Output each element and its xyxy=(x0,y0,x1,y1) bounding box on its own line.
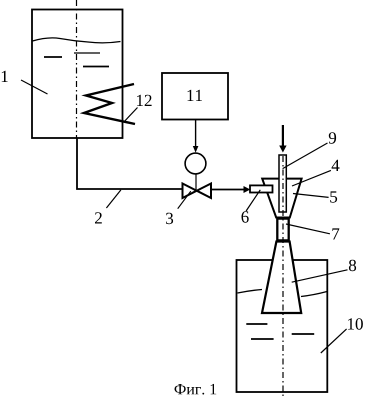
liquid dash a xyxy=(44,56,62,58)
inlet arrowhead xyxy=(279,146,286,153)
throat 7 xyxy=(277,219,288,241)
pipe valve to nozzle 6 xyxy=(211,189,245,191)
label 6 xyxy=(242,211,249,223)
line box 11 to pump xyxy=(195,120,197,148)
label 12 xyxy=(137,95,152,106)
pipe 2 xyxy=(77,138,183,189)
tank 1 xyxy=(32,10,123,139)
liquid level wave tank 1 xyxy=(33,38,121,43)
label 1 xyxy=(2,71,8,82)
liquid dash b xyxy=(74,52,100,54)
label 4 xyxy=(332,160,340,171)
liquid dash f xyxy=(292,333,315,335)
label 8 xyxy=(349,260,356,272)
label 7 xyxy=(332,228,339,239)
label 5 xyxy=(330,191,337,202)
tank 10 xyxy=(237,260,328,392)
arrowhead into nozzle 6 xyxy=(244,186,251,193)
label 2 xyxy=(95,212,102,223)
label 3 xyxy=(166,213,173,225)
leader for label 3 xyxy=(178,191,191,209)
leader for label 4 xyxy=(292,170,331,186)
arrowhead into pump xyxy=(193,146,199,153)
leader for label 5 xyxy=(293,194,329,198)
nozzle 6 xyxy=(250,185,273,192)
leader for label 1 xyxy=(21,80,48,94)
liquid level wave tank 10 right xyxy=(301,292,327,297)
leader for label 12 xyxy=(125,108,138,122)
liquid dash e xyxy=(251,338,274,340)
label 9 xyxy=(329,132,336,144)
valve stem xyxy=(195,174,197,191)
caption xyxy=(175,384,217,395)
valve 3 xyxy=(183,184,212,199)
main centerline of funnel assembly xyxy=(282,156,284,398)
leader for label 6 xyxy=(246,190,260,211)
leader for label 2 xyxy=(106,190,121,208)
label 10 xyxy=(348,318,363,330)
tube 9 xyxy=(279,155,286,212)
liquid dash d xyxy=(246,323,267,325)
centerline tank 1 xyxy=(76,0,78,138)
inlet arrow shaft xyxy=(282,125,284,147)
leader for label 9 xyxy=(283,143,328,169)
liquid dash c xyxy=(83,66,109,68)
box 11 xyxy=(162,73,228,120)
leader for label 10 xyxy=(321,329,347,353)
liquid level wave tank 10 left xyxy=(238,290,263,294)
heating coil 12 xyxy=(84,84,135,124)
leader for label 7 xyxy=(286,224,330,234)
pump circle xyxy=(185,153,206,174)
funnel 4 / 5 xyxy=(262,179,301,218)
cone 8 xyxy=(262,242,301,314)
leader for label 8 xyxy=(292,270,348,282)
label 11 xyxy=(188,90,203,101)
